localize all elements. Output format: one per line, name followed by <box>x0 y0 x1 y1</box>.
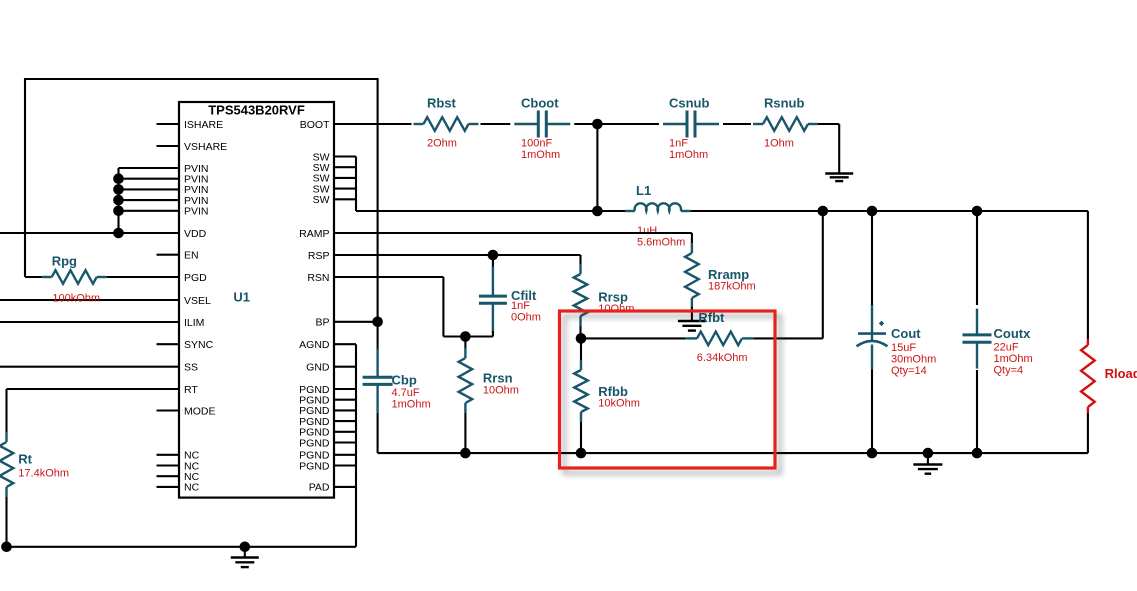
svg-text:ILIM: ILIM <box>184 317 204 329</box>
svg-text:2Ohm: 2Ohm <box>427 137 457 149</box>
svg-text:PAD: PAD <box>309 482 330 494</box>
svg-text:PGD: PGD <box>184 272 207 284</box>
svg-text:VSHARE: VSHARE <box>184 141 227 153</box>
svg-text:Qty=4: Qty=4 <box>994 365 1024 377</box>
svg-text:EN: EN <box>184 250 199 262</box>
svg-text:RT: RT <box>184 384 198 396</box>
svg-text:1uH: 1uH <box>637 225 657 237</box>
svg-text:PGND: PGND <box>299 437 330 449</box>
svg-text:1mOhm: 1mOhm <box>521 149 560 161</box>
svg-text:30mOhm: 30mOhm <box>891 354 936 366</box>
svg-text:Rsnub: Rsnub <box>764 96 805 111</box>
svg-text:1nF: 1nF <box>511 300 530 312</box>
svg-text:5.6mOhm: 5.6mOhm <box>637 236 685 248</box>
svg-text:SYNC: SYNC <box>184 339 214 351</box>
svg-text:100nF: 100nF <box>521 137 552 149</box>
svg-text:U1: U1 <box>233 290 250 305</box>
svg-text:4.7uF: 4.7uF <box>392 387 420 399</box>
svg-text:Rbst: Rbst <box>427 96 457 111</box>
svg-text:Cbp: Cbp <box>392 372 417 387</box>
svg-text:15uF: 15uF <box>891 342 916 354</box>
svg-text:100kOhm: 100kOhm <box>52 293 100 305</box>
svg-text:22uF: 22uF <box>994 342 1019 354</box>
svg-text:Coutx: Coutx <box>994 326 1032 341</box>
svg-text:RSP: RSP <box>308 250 330 262</box>
svg-text:TPS543B20RVF: TPS543B20RVF <box>208 103 305 118</box>
svg-text:PGND: PGND <box>299 460 330 472</box>
svg-text:AGND: AGND <box>299 339 330 351</box>
svg-text:10Ohm: 10Ohm <box>483 385 519 397</box>
svg-text:Csnub: Csnub <box>669 96 710 111</box>
svg-text:L1: L1 <box>636 183 651 198</box>
svg-text:Rrsn: Rrsn <box>483 371 513 386</box>
svg-text:187kOhm: 187kOhm <box>708 281 756 293</box>
svg-text:SS: SS <box>184 362 198 374</box>
svg-text:PVIN: PVIN <box>184 206 209 218</box>
svg-text:1Ohm: 1Ohm <box>764 137 794 149</box>
svg-text:1mOhm: 1mOhm <box>392 399 431 411</box>
svg-text:BP: BP <box>315 317 329 329</box>
svg-text:1nF: 1nF <box>669 137 688 149</box>
svg-text:SW: SW <box>313 194 330 206</box>
svg-text:GND: GND <box>306 362 330 374</box>
svg-text:NC: NC <box>184 482 200 494</box>
svg-text:Qty=14: Qty=14 <box>891 365 927 377</box>
svg-text:Cboot: Cboot <box>521 96 559 111</box>
svg-text:RAMP: RAMP <box>299 228 329 240</box>
svg-text:Rload: Rload <box>1105 366 1137 381</box>
svg-text:10kOhm: 10kOhm <box>598 398 640 410</box>
svg-text:ISHARE: ISHARE <box>184 119 223 131</box>
svg-text:MODE: MODE <box>184 405 216 417</box>
svg-text:17.4kOhm: 17.4kOhm <box>18 468 69 480</box>
svg-text:1mOhm: 1mOhm <box>669 149 708 161</box>
svg-text:1mOhm: 1mOhm <box>994 353 1033 365</box>
svg-text:0Ohm: 0Ohm <box>511 311 541 323</box>
svg-text:RSN: RSN <box>307 272 329 284</box>
svg-text:Cout: Cout <box>891 326 921 341</box>
svg-text:Rt: Rt <box>18 452 32 467</box>
svg-text:VDD: VDD <box>184 228 207 240</box>
svg-text:6.34kOhm: 6.34kOhm <box>697 352 748 364</box>
svg-text:BOOT: BOOT <box>300 119 330 131</box>
svg-text:Rpg: Rpg <box>52 253 77 268</box>
svg-text:VSEL: VSEL <box>184 295 211 307</box>
svg-text:10Ohm: 10Ohm <box>598 303 634 315</box>
